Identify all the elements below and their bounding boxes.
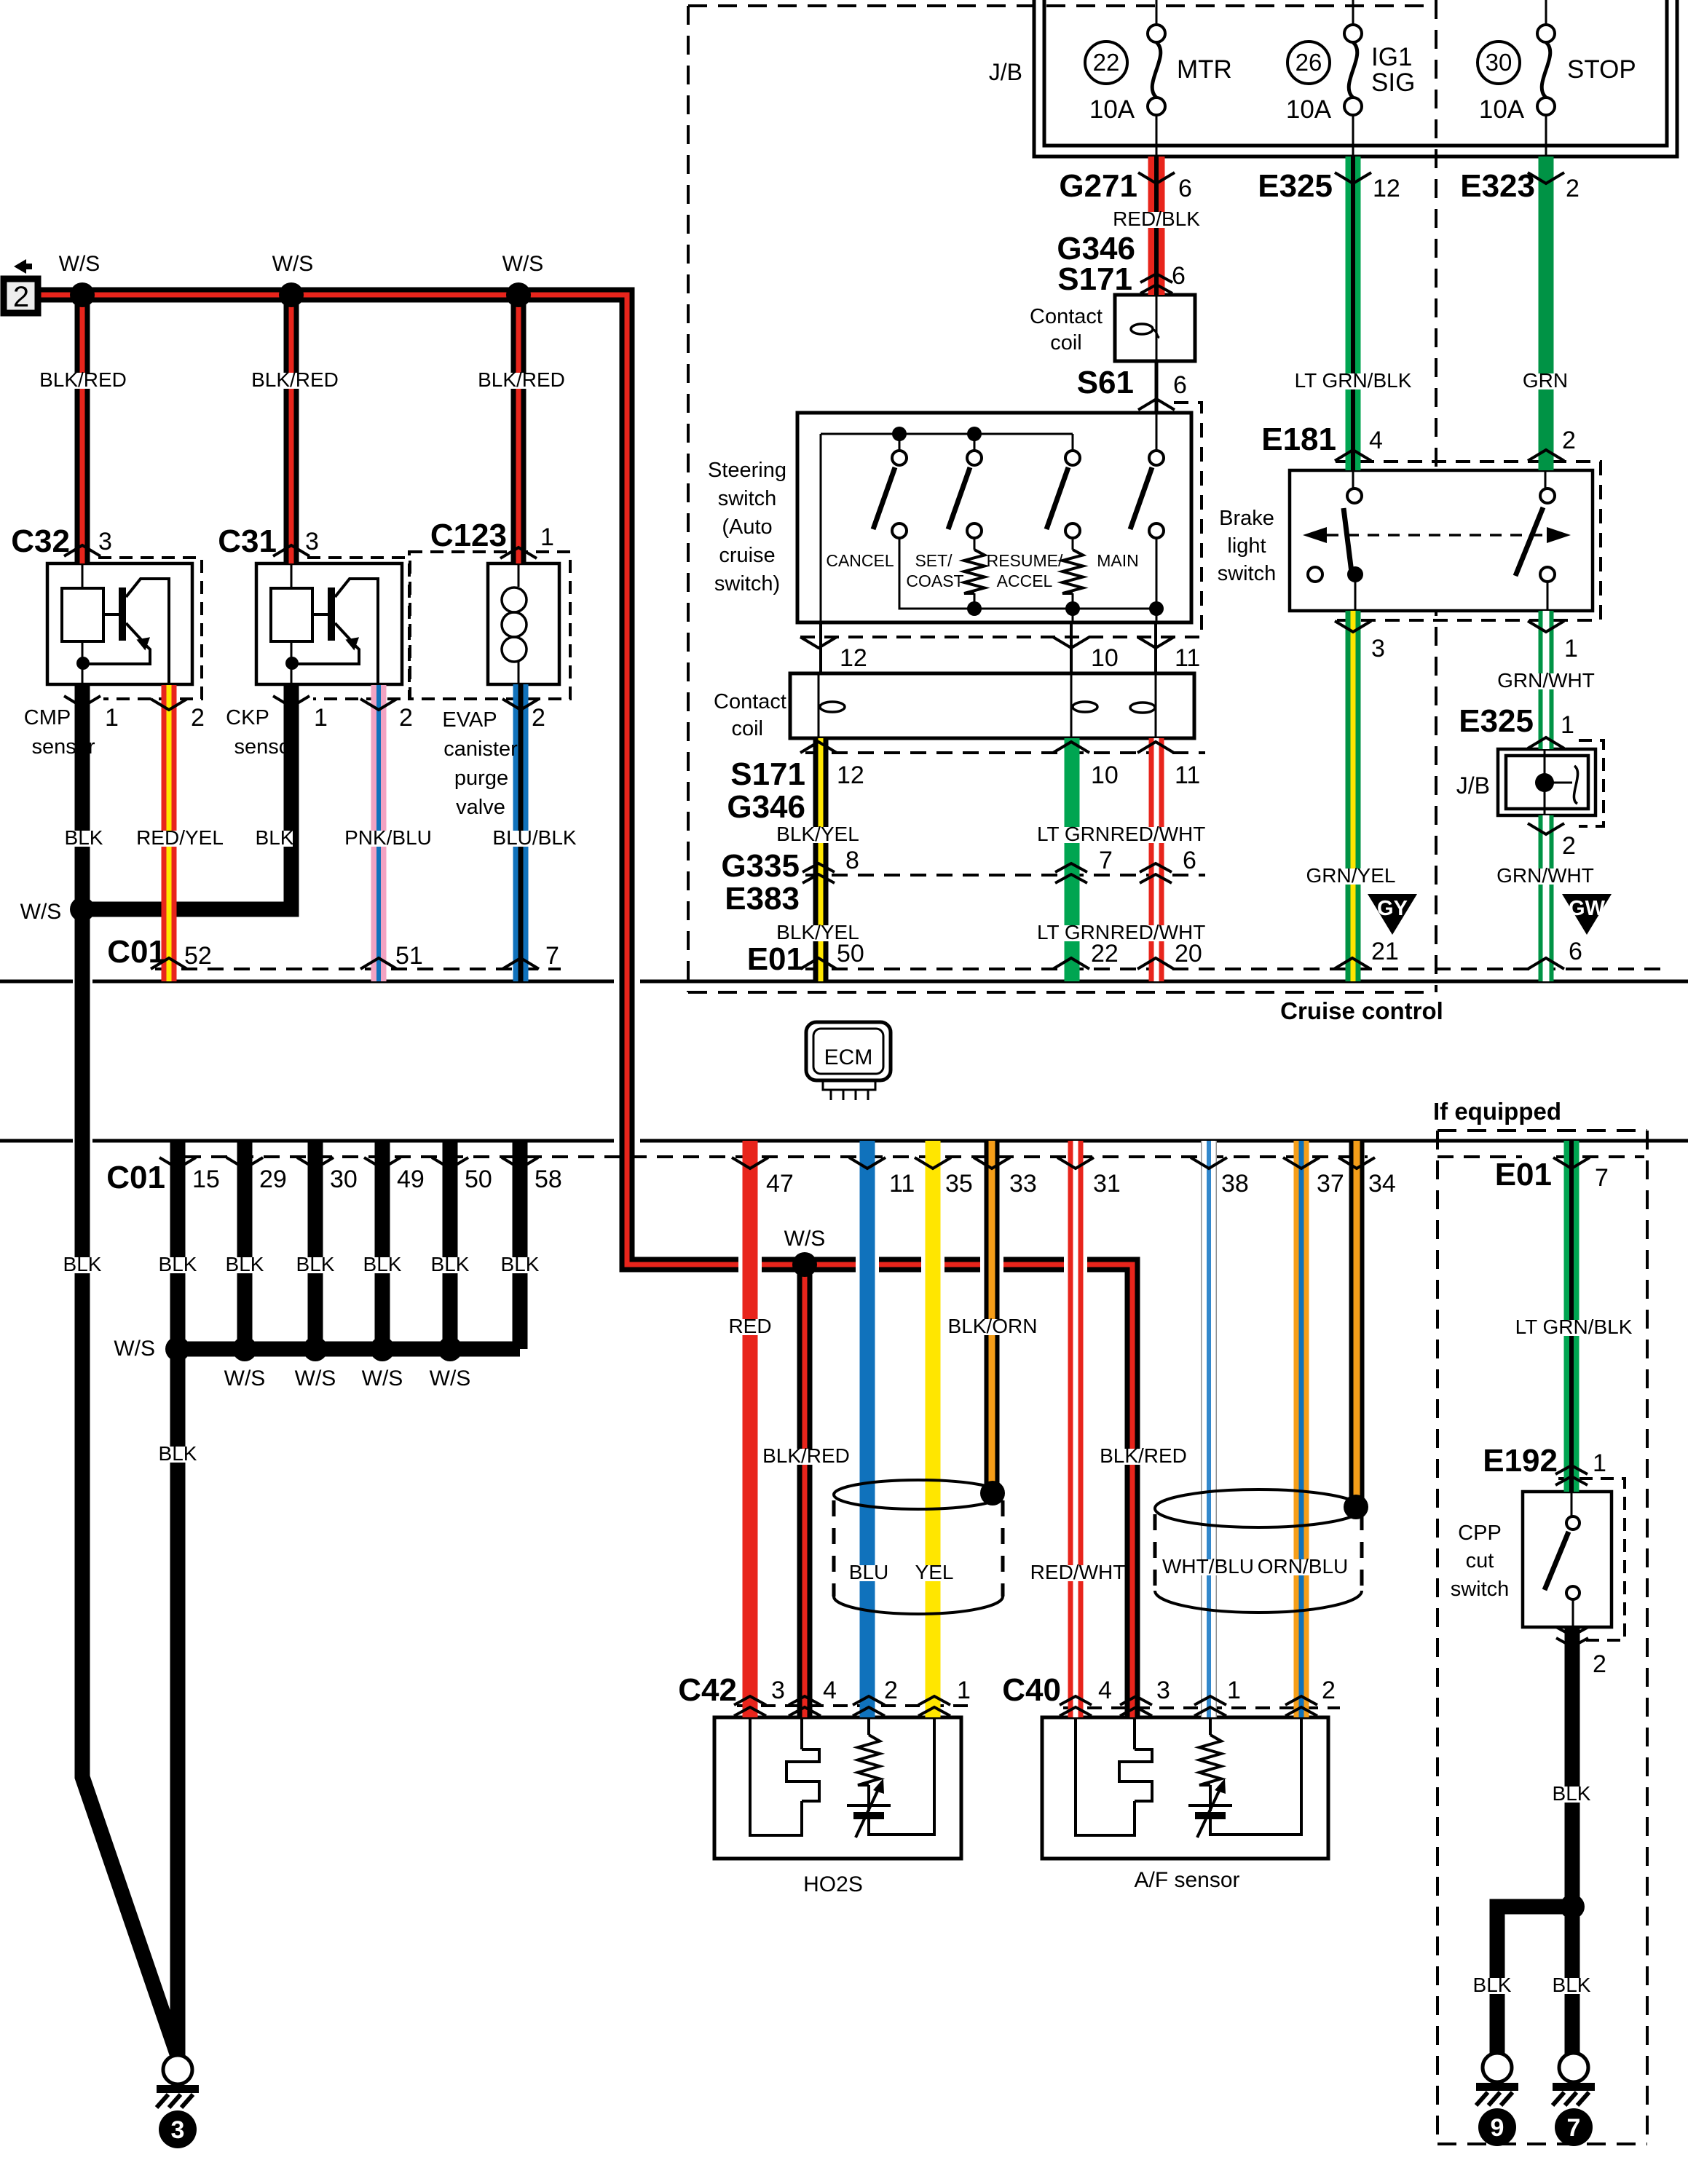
svg-text:BLK/RED: BLK/RED [478,368,565,391]
svg-text:(Auto: (Auto [722,515,772,539]
svg-text:3: 3 [771,1677,785,1704]
svg-text:6: 6 [1178,175,1192,202]
svg-text:ECM: ECM [824,1045,873,1069]
svg-text:STOP: STOP [1567,55,1636,84]
svg-text:BLK: BLK [63,1253,102,1275]
svg-text:W/S: W/S [362,1366,403,1390]
svg-text:COAST: COAST [906,571,963,590]
svg-text:2: 2 [884,1677,898,1704]
svg-text:W/S: W/S [59,252,100,276]
svg-text:W/S: W/S [295,1366,336,1390]
svg-text:7: 7 [545,942,559,970]
svg-text:7: 7 [1099,847,1113,874]
svg-text:8: 8 [845,847,859,874]
svg-text:7: 7 [1595,1164,1609,1192]
svg-text:E323: E323 [1460,168,1535,204]
svg-text:38: 38 [1221,1170,1249,1198]
svg-text:1: 1 [1561,711,1574,739]
svg-text:RESUME/: RESUME/ [987,551,1063,570]
svg-text:6: 6 [1183,847,1196,874]
svg-text:10: 10 [1091,644,1119,672]
svg-text:BLK: BLK [1553,1974,1591,1996]
svg-text:2: 2 [1322,1677,1336,1704]
svg-text:coil: coil [1050,331,1082,355]
svg-text:1: 1 [105,704,119,732]
svg-text:26: 26 [1295,49,1322,76]
svg-text:10A: 10A [1479,95,1525,124]
svg-text:BLK/RED: BLK/RED [39,368,127,391]
svg-text:10A: 10A [1089,95,1135,124]
svg-text:ORN/BLU: ORN/BLU [1258,1555,1348,1578]
svg-text:GRN/YEL: GRN/YEL [1306,864,1396,887]
svg-text:2: 2 [399,704,413,732]
svg-text:2: 2 [1566,175,1579,202]
svg-text:C40: C40 [1002,1672,1061,1708]
svg-text:47: 47 [766,1170,794,1198]
svg-text:1: 1 [540,523,554,551]
svg-text:49: 49 [397,1166,425,1193]
svg-text:sensor: sensor [31,735,95,759]
svg-text:cruise: cruise [719,544,775,567]
svg-text:CMP: CMP [24,706,71,729]
svg-text:E325: E325 [1459,703,1534,739]
svg-text:GRN: GRN [1523,369,1568,392]
svg-text:BLK/RED: BLK/RED [1100,1444,1187,1467]
svg-text:BLK: BLK [226,1253,264,1275]
svg-text:RED/WHT: RED/WHT [1111,823,1206,845]
svg-text:C123: C123 [430,518,507,553]
svg-text:31: 31 [1093,1170,1121,1198]
svg-text:12: 12 [1373,175,1400,202]
svg-text:SET/: SET/ [915,551,953,570]
svg-text:10: 10 [1091,761,1119,789]
svg-text:switch): switch) [714,572,780,596]
svg-text:YEL: YEL [915,1561,954,1583]
svg-text:E192: E192 [1483,1443,1558,1479]
svg-text:GRN/WHT: GRN/WHT [1497,669,1595,692]
svg-text:6: 6 [1172,262,1186,290]
svg-text:35: 35 [945,1170,973,1198]
svg-text:33: 33 [1009,1170,1037,1198]
svg-text:22: 22 [1091,940,1119,968]
svg-text:J/B: J/B [1456,772,1490,799]
svg-text:RED/BLK: RED/BLK [1113,207,1200,230]
svg-text:BLU: BLU [849,1561,888,1583]
svg-text:BLK/RED: BLK/RED [762,1444,850,1467]
svg-text:4: 4 [823,1677,837,1704]
svg-text:Steering: Steering [708,459,786,482]
svg-text:12: 12 [840,644,867,672]
svg-text:S171: S171 [730,756,805,792]
svg-text:If equipped: If equipped [1433,1098,1561,1125]
svg-text:Brake: Brake [1219,507,1274,530]
svg-text:11: 11 [889,1170,915,1198]
svg-text:3: 3 [171,2116,185,2144]
svg-text:W/S: W/S [20,900,62,924]
svg-text:34: 34 [1368,1170,1396,1198]
svg-text:1: 1 [1593,1449,1606,1477]
svg-text:6: 6 [1173,371,1187,399]
svg-text:51: 51 [395,942,423,970]
svg-text:BLK/RED: BLK/RED [251,368,339,391]
svg-text:11: 11 [1175,644,1200,672]
svg-text:C01: C01 [107,934,166,970]
svg-text:58: 58 [535,1166,562,1193]
svg-text:BLK: BLK [296,1253,335,1275]
svg-text:IG1: IG1 [1371,43,1412,71]
svg-text:6: 6 [1569,938,1582,965]
svg-text:CANCEL: CANCEL [826,551,894,570]
svg-text:7: 7 [1567,2114,1581,2142]
svg-text:BLK: BLK [159,1442,197,1465]
svg-text:EVAP: EVAP [442,708,497,732]
svg-text:RED: RED [728,1315,771,1337]
svg-text:Cruise control: Cruise control [1280,997,1443,1024]
svg-text:canister: canister [443,737,518,761]
svg-text:Contact: Contact [1030,305,1103,328]
svg-text:W/S: W/S [272,252,314,276]
svg-text:LT GRN/BLK: LT GRN/BLK [1295,369,1412,392]
svg-text:A/F sensor: A/F sensor [1134,1868,1239,1892]
svg-text:GY: GY [1377,897,1408,920]
svg-text:11: 11 [1175,761,1200,789]
svg-text:4: 4 [1369,427,1383,454]
svg-text:BLK/ORN: BLK/ORN [948,1315,1038,1337]
svg-text:E383: E383 [725,881,800,917]
svg-text:light: light [1227,534,1266,558]
svg-text:BLK: BLK [65,826,103,849]
svg-text:W/S: W/S [430,1366,471,1390]
svg-text:sensor: sensor [234,735,297,759]
svg-text:29: 29 [259,1166,287,1193]
svg-text:G335: G335 [721,848,800,884]
svg-text:W/S: W/S [224,1366,266,1390]
svg-text:3: 3 [98,528,112,555]
svg-text:SIG: SIG [1371,68,1415,97]
svg-text:CKP: CKP [226,706,269,729]
svg-text:HO2S: HO2S [803,1872,863,1896]
svg-text:BLK: BLK [256,826,294,849]
svg-text:2: 2 [1562,832,1576,860]
svg-text:coil: coil [731,717,763,740]
svg-text:W/S: W/S [502,252,544,276]
svg-text:cut: cut [1466,1549,1494,1572]
svg-text:2: 2 [532,704,545,732]
svg-text:2: 2 [1562,427,1576,454]
svg-text:2: 2 [1593,1650,1606,1678]
svg-text:MAIN: MAIN [1097,551,1139,570]
svg-text:E01: E01 [1495,1157,1552,1192]
svg-text:MTR: MTR [1177,55,1232,84]
svg-text:J/B: J/B [989,59,1022,85]
svg-text:E325: E325 [1258,168,1333,204]
svg-text:RED/WHT: RED/WHT [1030,1561,1126,1583]
svg-text:1: 1 [1227,1677,1241,1704]
svg-text:9: 9 [1491,2114,1504,2142]
svg-text:purge: purge [454,767,508,790]
svg-text:C01: C01 [106,1160,165,1195]
svg-text:BLK: BLK [363,1253,402,1275]
svg-text:BLK: BLK [159,1253,197,1275]
svg-text:C31: C31 [218,523,277,559]
svg-text:BLU/BLK: BLU/BLK [492,826,576,849]
svg-text:4: 4 [1098,1677,1112,1704]
svg-text:switch: switch [1451,1578,1510,1601]
svg-text:switch: switch [1218,562,1277,585]
svg-text:37: 37 [1317,1170,1344,1198]
svg-text:LT GRN: LT GRN [1037,823,1110,845]
svg-text:LT GRN/BLK: LT GRN/BLK [1515,1315,1633,1338]
svg-text:22: 22 [1093,49,1120,76]
svg-text:10A: 10A [1286,95,1332,124]
svg-text:valve: valve [456,796,505,819]
svg-text:W/S: W/S [784,1227,826,1251]
svg-text:CPP: CPP [1458,1522,1502,1545]
svg-text:52: 52 [184,942,212,970]
svg-text:S61: S61 [1077,365,1134,400]
svg-text:ACCEL: ACCEL [997,571,1053,590]
svg-text:21: 21 [1371,938,1399,965]
svg-text:RED/YEL: RED/YEL [136,826,224,849]
svg-text:3: 3 [1156,1677,1170,1704]
svg-text:WHT/BLU: WHT/BLU [1162,1555,1254,1578]
svg-text:1: 1 [1564,635,1578,662]
svg-text:Contact: Contact [714,690,786,713]
svg-text:12: 12 [837,761,864,789]
svg-text:C32: C32 [11,523,70,559]
svg-text:BLK: BLK [431,1253,470,1275]
svg-text:G346: G346 [727,789,805,825]
svg-text:C42: C42 [678,1672,737,1708]
svg-text:BLK: BLK [1473,1974,1512,1996]
svg-text:BLK: BLK [1553,1782,1591,1805]
svg-text:30: 30 [1486,49,1513,76]
svg-text:G271: G271 [1059,168,1137,204]
svg-text:50: 50 [465,1166,492,1193]
svg-text:W/S: W/S [114,1337,155,1361]
svg-text:3: 3 [305,528,319,555]
svg-text:E01: E01 [747,941,804,977]
svg-text:BLK: BLK [501,1253,540,1275]
svg-text:20: 20 [1175,940,1202,968]
svg-text:E181: E181 [1261,422,1336,457]
svg-text:GRN/WHT: GRN/WHT [1496,864,1594,887]
svg-text:2: 2 [191,704,205,732]
svg-text:50: 50 [837,940,864,968]
svg-text:3: 3 [1371,635,1385,662]
svg-text:S171: S171 [1057,261,1132,297]
svg-text:15: 15 [192,1166,220,1193]
svg-text:PNK/BLU: PNK/BLU [344,826,432,849]
svg-text:1: 1 [314,704,328,732]
svg-text:1: 1 [957,1677,971,1704]
svg-text:2: 2 [13,281,29,313]
svg-text:BLK/YEL: BLK/YEL [776,823,859,845]
svg-text:30: 30 [330,1166,358,1193]
svg-text:GW: GW [1569,897,1606,920]
svg-text:switch: switch [718,487,777,510]
